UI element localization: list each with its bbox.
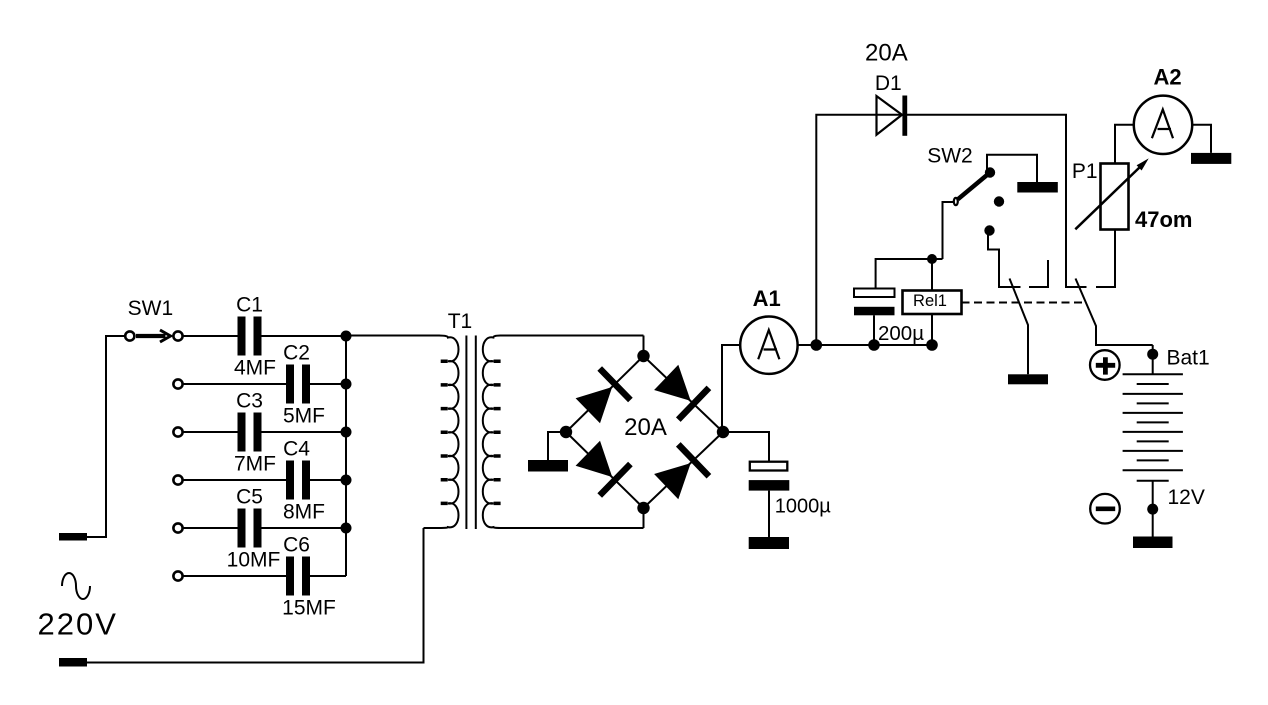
capacitor bus wire (345, 336, 347, 576)
capacitor C4 (286, 461, 294, 500)
node dot bus row5 (341, 523, 352, 534)
node dot bus row4 (341, 475, 352, 486)
wire row4 left (183, 479, 286, 481)
wire battery bottom stub (1152, 481, 1154, 537)
wire A2 right to terminal (1192, 125, 1211, 153)
wire 200u bottom (873, 315, 875, 345)
svg-text:A2: A2 (1153, 65, 1181, 90)
terminal bar right of A2 (1191, 153, 1231, 164)
svg-text:15MF: 15MF (282, 597, 336, 620)
secondary winding ticks (494, 361, 501, 503)
relay contact arm left (1010, 279, 1029, 375)
battery negative circle (1090, 494, 1120, 524)
battery positive circle (1090, 350, 1120, 380)
svg-text:10MF: 10MF (227, 549, 281, 572)
svg-text:8MF: 8MF (283, 501, 325, 524)
switch SW2 contact dot upper (994, 196, 1004, 206)
switch SW1 arm arrow (136, 334, 166, 338)
node dot bus row3 (341, 427, 352, 438)
svg-text:T1: T1 (448, 310, 473, 333)
wire row3 right (262, 431, 347, 433)
ammeter A2 glyph (1152, 110, 1173, 139)
svg-text:Bat1: Bat1 (1167, 347, 1210, 370)
transformer T1 primary winding (346, 336, 459, 529)
wire bridge left to ground (548, 432, 566, 460)
svg-text:7MF: 7MF (234, 453, 276, 476)
capacitor C5 (238, 509, 246, 548)
svg-text:C3: C3 (236, 390, 263, 413)
potentiometer P1 arrow (1075, 166, 1141, 229)
svg-text:1000µ: 1000µ (775, 496, 831, 518)
node dot bridge top (637, 350, 649, 362)
AC source terminal top (59, 533, 87, 541)
AC sine symbol (62, 573, 90, 599)
svg-text:D1: D1 (875, 72, 902, 95)
svg-text:4MF: 4MF (234, 357, 276, 380)
svg-text:SW1: SW1 (128, 297, 174, 320)
ground bar under 1000u (749, 537, 789, 549)
wire P1 top to A2 (1115, 125, 1134, 164)
svg-text:12V: 12V (1168, 486, 1205, 509)
switch SW1 throw circle (173, 331, 182, 340)
wire row2 right (310, 383, 346, 385)
bridge diode lower-left triangle (576, 441, 613, 477)
potentiometer P1 body (1101, 164, 1129, 230)
capacitor C3 (238, 413, 246, 452)
wire secondary bottom to bridge (643, 508, 645, 528)
capacitor C6 (286, 557, 294, 596)
row2 terminal circle (173, 379, 182, 388)
row3 terminal circle (173, 427, 182, 436)
bridge diode lower-right bar (678, 444, 709, 476)
bridge diode upper-right triangle (654, 365, 691, 401)
svg-text:C5: C5 (236, 486, 263, 509)
SW2 terminal bar (1017, 182, 1058, 193)
svg-text:C1: C1 (236, 294, 263, 317)
ground bar under relay contact (1008, 374, 1048, 384)
svg-text:C6: C6 (283, 534, 310, 557)
row5 terminal circle (173, 523, 182, 532)
node dot bus row1 (341, 331, 352, 342)
ground bar under battery (1133, 537, 1173, 549)
node dot bridge bottom (637, 502, 649, 514)
svg-text:220V: 220V (38, 607, 118, 642)
capacitor C2 (286, 365, 294, 404)
node dot SW2 common (927, 254, 937, 264)
switch SW2 contact dot lower (984, 225, 994, 235)
relay contact arm right (1076, 279, 1153, 346)
node dot SW2 pivot (985, 167, 995, 177)
AC source terminal bottom (59, 658, 87, 667)
node dot D1 branch (811, 339, 823, 351)
wire row4 right (310, 479, 346, 481)
relay Rel1 box (903, 291, 962, 315)
wire D1 loop (816, 115, 1086, 345)
capacitor 200u top plate (854, 289, 895, 298)
capacitor C1 (238, 317, 246, 356)
ammeter A1 glyph (758, 330, 779, 359)
bridge diode lower-left bar (600, 464, 631, 496)
wire 1000u to ground (768, 491, 770, 537)
transformer T1 secondary winding (483, 336, 644, 529)
wire SW2 pivot to terminal bar (987, 155, 1037, 182)
bridge diode upper-left triangle (576, 387, 613, 423)
svg-text:C4: C4 (283, 438, 310, 461)
wire to 200u capacitor (876, 259, 943, 289)
battery Bat1 plates (1123, 374, 1183, 481)
wire row1 right (262, 335, 347, 337)
svg-text:20A: 20A (865, 40, 908, 67)
primary winding ticks (441, 361, 448, 503)
switch SW2 arm (958, 173, 990, 200)
row6 terminal circle (173, 571, 182, 580)
capacitor 200u bottom plate (854, 307, 895, 316)
wire bridge right to ammeter A1 (722, 345, 741, 432)
relay actuation dashed line (962, 302, 1083, 304)
bridge diode lower-right triangle (654, 463, 691, 499)
capacitor 1000u bottom plate (749, 480, 790, 491)
svg-text:SW2: SW2 (927, 145, 973, 168)
bridge diode upper-right bar (678, 388, 709, 420)
diode D1 cathode bar (902, 96, 907, 136)
svg-text:47om: 47om (1135, 207, 1192, 232)
svg-text:C2: C2 (283, 342, 310, 365)
wire secondary top to bridge (643, 336, 645, 357)
wire SW2 common down (932, 202, 953, 345)
wire row6 left (183, 575, 286, 577)
wire from bottom terminal to transformer primary (87, 528, 424, 663)
wire row5 left (183, 527, 238, 529)
wire row6 right (310, 575, 346, 577)
ammeter A2 circle (1134, 96, 1192, 154)
relay contact stub left (1029, 260, 1048, 287)
wire from top terminal to SW1 (87, 336, 125, 537)
svg-text:P1: P1 (1072, 160, 1098, 183)
wire SW2 lower contact to relay contact (988, 231, 1021, 287)
svg-text:A1: A1 (753, 286, 781, 311)
ground bar at bridge (528, 460, 568, 472)
node dot battery positive (1147, 349, 1158, 360)
node dot bridge left (560, 426, 572, 438)
bridge diode upper-left bar (600, 369, 631, 401)
transformer T1 core (466, 336, 475, 530)
diode D1 triangle (877, 96, 903, 135)
bridge rectifier edges (566, 356, 723, 508)
node dot 200u branch (868, 339, 880, 351)
battery plus sign (1096, 357, 1115, 374)
wire row3 left (183, 431, 238, 433)
node dot SW2 branch (926, 339, 938, 351)
wire row1 left (183, 335, 238, 337)
node dot bridge right (717, 426, 729, 438)
row4 terminal circle (173, 475, 182, 484)
wire bridge right to capacitor 1000u (723, 432, 769, 461)
svg-text:20A: 20A (624, 414, 667, 441)
svg-text:Rel1: Rel1 (913, 292, 947, 310)
wire row2 left (183, 383, 286, 385)
node dot bus row2 (341, 379, 352, 390)
wire A1 output (797, 344, 932, 346)
wire row5 right (262, 527, 347, 529)
switch SW2 arm end circle (954, 198, 958, 205)
wire P1 bottom to relay contact (1096, 229, 1115, 287)
ammeter A1 circle (740, 317, 797, 374)
capacitor 1000u top plate (750, 462, 788, 471)
battery minus sign (1096, 506, 1115, 511)
svg-text:5MF: 5MF (283, 405, 325, 428)
switch SW1 pole circle (125, 331, 134, 340)
node dot battery negative (1147, 504, 1158, 515)
wire battery top stub (1152, 345, 1154, 374)
svg-text:200µ: 200µ (878, 322, 924, 345)
